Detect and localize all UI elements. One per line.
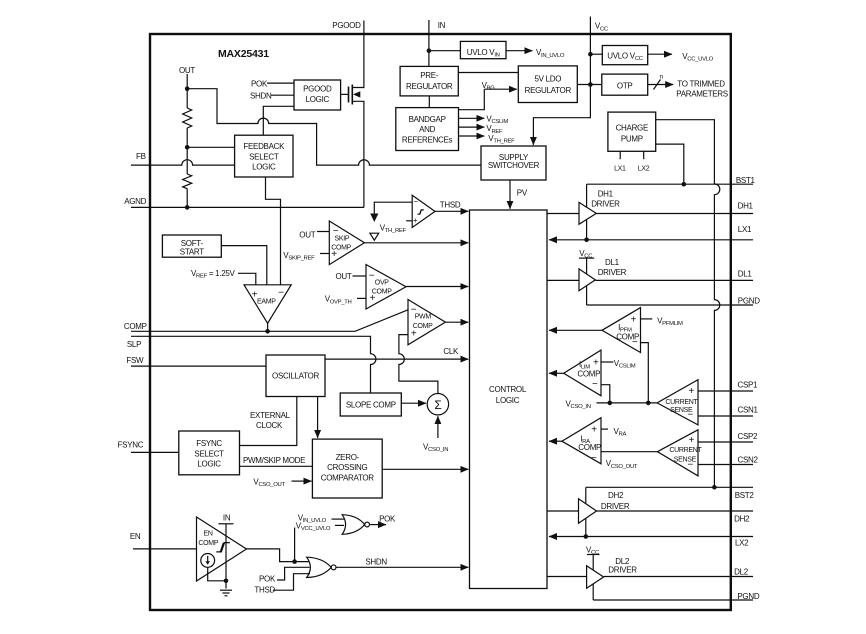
svg-text:PWM/SKIP MODE: PWM/SKIP MODE bbox=[243, 456, 305, 465]
svg-text:+: + bbox=[370, 293, 376, 304]
svg-text:OTP: OTP bbox=[617, 82, 633, 91]
svg-text:MAX25431: MAX25431 bbox=[218, 48, 269, 60]
svg-text:SHDN: SHDN bbox=[250, 91, 272, 100]
svg-text:EN: EN bbox=[204, 531, 213, 538]
svg-text:−: − bbox=[413, 197, 418, 206]
svg-text:FSYNC: FSYNC bbox=[196, 439, 222, 448]
svg-text:DH2: DH2 bbox=[608, 491, 624, 500]
svg-text:PRE-: PRE- bbox=[420, 71, 439, 80]
svg-text:POK: POK bbox=[379, 514, 396, 523]
svg-text:AGND: AGND bbox=[124, 197, 146, 206]
svg-text:DRIVER: DRIVER bbox=[608, 566, 637, 575]
svg-text:DRIVER: DRIVER bbox=[598, 268, 627, 277]
svg-text:AND: AND bbox=[419, 125, 436, 134]
svg-text:PV: PV bbox=[517, 189, 528, 198]
svg-text:OSCILLATOR: OSCILLATOR bbox=[272, 372, 319, 381]
svg-text:THSD: THSD bbox=[440, 201, 461, 210]
svg-text:PUMP: PUMP bbox=[621, 135, 643, 144]
svg-text:SELECT: SELECT bbox=[249, 153, 279, 162]
svg-text:CHARGE: CHARGE bbox=[616, 124, 648, 133]
svg-text:TO TRIMMED: TO TRIMMED bbox=[677, 79, 725, 88]
svg-text:OUT: OUT bbox=[299, 230, 315, 239]
svg-text:Σ: Σ bbox=[434, 398, 441, 412]
svg-text:+: + bbox=[689, 386, 695, 397]
svg-text:BANDGAP: BANDGAP bbox=[409, 115, 446, 124]
svg-text:FSYNC: FSYNC bbox=[118, 440, 144, 449]
svg-text:LOGIC: LOGIC bbox=[252, 163, 276, 172]
svg-text:CSN2: CSN2 bbox=[738, 456, 759, 465]
svg-text:SELECT: SELECT bbox=[194, 450, 224, 459]
svg-text:START: START bbox=[180, 248, 204, 257]
svg-text:−: − bbox=[592, 379, 598, 390]
svg-text:SENSE: SENSE bbox=[674, 457, 697, 464]
svg-text:EN: EN bbox=[130, 532, 141, 541]
svg-text:CURRENT: CURRENT bbox=[669, 447, 702, 454]
svg-text:DL1: DL1 bbox=[738, 270, 753, 279]
svg-text:REGULATOR: REGULATOR bbox=[525, 86, 572, 95]
svg-text:SLOPE COMP: SLOPE COMP bbox=[346, 401, 396, 410]
svg-text:DL1: DL1 bbox=[605, 258, 620, 267]
svg-text:COMPARATOR: COMPARATOR bbox=[321, 474, 375, 483]
svg-text:+: + bbox=[411, 329, 417, 340]
svg-text:−: − bbox=[333, 226, 339, 237]
svg-text:+: + bbox=[331, 249, 337, 260]
svg-text:SHDN: SHDN bbox=[365, 558, 387, 567]
svg-text:−: − bbox=[591, 453, 597, 464]
svg-text:CSP2: CSP2 bbox=[738, 432, 759, 441]
svg-text:DL2: DL2 bbox=[734, 568, 749, 577]
svg-text:COMP: COMP bbox=[198, 540, 218, 547]
svg-text:REFERENCEs: REFERENCEs bbox=[402, 136, 453, 145]
svg-text:ZERO-: ZERO- bbox=[336, 453, 360, 462]
svg-text:LOGIC: LOGIC bbox=[496, 396, 520, 405]
svg-text:BST2: BST2 bbox=[735, 491, 755, 500]
svg-text:LX2: LX2 bbox=[638, 166, 650, 173]
svg-text:−: − bbox=[688, 460, 694, 471]
svg-text:CLOCK: CLOCK bbox=[256, 421, 283, 430]
svg-text:FB: FB bbox=[136, 152, 146, 161]
svg-text:CLK: CLK bbox=[443, 347, 459, 356]
svg-text:+: + bbox=[593, 358, 599, 369]
svg-text:LX2: LX2 bbox=[735, 539, 749, 548]
svg-text:LOGIC: LOGIC bbox=[197, 459, 221, 468]
svg-text:OUT: OUT bbox=[179, 66, 195, 75]
svg-text:LX1: LX1 bbox=[738, 225, 752, 234]
svg-text:POK: POK bbox=[251, 80, 268, 89]
svg-text:PARAMETERS: PARAMETERS bbox=[676, 90, 728, 99]
svg-text:DRIVER: DRIVER bbox=[591, 200, 620, 209]
svg-text:PGND: PGND bbox=[738, 297, 760, 306]
svg-text:COMP: COMP bbox=[124, 322, 147, 331]
svg-text:DH1: DH1 bbox=[598, 190, 614, 199]
svg-text:−: − bbox=[632, 337, 638, 348]
svg-text:EAMP: EAMP bbox=[257, 299, 276, 306]
svg-text:COMP: COMP bbox=[578, 443, 601, 452]
svg-text:CURRENT: CURRENT bbox=[665, 399, 698, 406]
svg-text:+: + bbox=[413, 216, 418, 225]
svg-text:IN: IN bbox=[223, 513, 231, 522]
svg-text:−: − bbox=[411, 305, 417, 316]
svg-text:COMP: COMP bbox=[577, 370, 600, 379]
svg-text:DRIVER: DRIVER bbox=[601, 502, 630, 511]
svg-text:CROSSING: CROSSING bbox=[327, 463, 367, 472]
svg-text:PGOOD: PGOOD bbox=[303, 85, 332, 94]
svg-text:REGULATOR: REGULATOR bbox=[406, 82, 453, 91]
svg-text:+: + bbox=[252, 290, 258, 301]
svg-text:DH1: DH1 bbox=[738, 202, 754, 211]
svg-text:FSW: FSW bbox=[126, 356, 144, 365]
svg-text:+: + bbox=[631, 314, 637, 325]
svg-text:LOGIC: LOGIC bbox=[306, 95, 330, 104]
svg-text:SLP: SLP bbox=[127, 340, 141, 349]
svg-text:DH2: DH2 bbox=[734, 514, 750, 523]
svg-text:LX1: LX1 bbox=[614, 166, 626, 173]
svg-text:OUT: OUT bbox=[336, 272, 352, 281]
svg-text:DL2: DL2 bbox=[615, 557, 630, 566]
svg-text:PWM: PWM bbox=[415, 314, 432, 321]
svg-text:−: − bbox=[278, 288, 284, 299]
svg-text:CSN1: CSN1 bbox=[738, 406, 759, 415]
svg-text:5V LDO: 5V LDO bbox=[534, 75, 561, 84]
svg-text:IN: IN bbox=[438, 21, 446, 30]
svg-text:BST1: BST1 bbox=[736, 176, 756, 185]
svg-text:THSD: THSD bbox=[254, 586, 275, 595]
svg-text:POK: POK bbox=[259, 575, 276, 584]
svg-text:+: + bbox=[591, 424, 597, 435]
svg-text:CSP1: CSP1 bbox=[738, 381, 759, 390]
svg-text:PGOOD: PGOOD bbox=[332, 21, 361, 30]
svg-text:CONTROL: CONTROL bbox=[489, 385, 527, 394]
svg-text:EXTERNAL: EXTERNAL bbox=[250, 411, 291, 420]
svg-text:+: + bbox=[689, 435, 695, 446]
svg-text:PGND: PGND bbox=[737, 592, 759, 601]
svg-text:OVP: OVP bbox=[375, 280, 390, 287]
svg-text:−: − bbox=[687, 410, 693, 421]
svg-text:SWITCHOVER: SWITCHOVER bbox=[488, 161, 540, 170]
svg-text:FEEDBACK: FEEDBACK bbox=[243, 142, 285, 151]
svg-text:−: − bbox=[369, 271, 375, 282]
